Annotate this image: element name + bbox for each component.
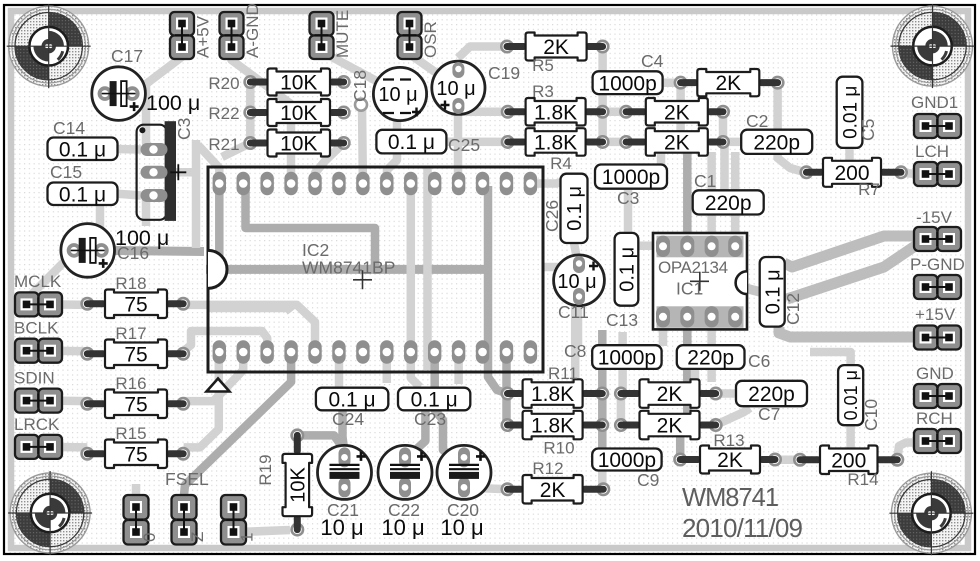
svg-text:220p: 220p [753, 131, 800, 154]
wire FSEL jumper 1 stub [132, 484, 141, 502]
svg-text:WM8741: WM8741 [682, 484, 778, 512]
label C23 [414, 409, 446, 429]
svg-text:2K: 2K [715, 72, 741, 95]
capacitor C18 10u [373, 67, 426, 120]
svg-text:C5: C5 [858, 119, 878, 141]
capacitor C6 220p [677, 345, 745, 369]
value 100u (C17) [146, 91, 200, 115]
connector P-GND [910, 255, 965, 299]
wire IC2 interior vertical B [423, 167, 432, 370]
wire to 2K left col [618, 332, 627, 394]
wire C3 mid pad right [154, 172, 196, 248]
svg-text:R21: R21 [208, 135, 239, 154]
svg-text:R22: R22 [208, 104, 239, 123]
wire 2K to 1000p C3 [661, 83, 681, 166]
svg-text:LRCK: LRCK [14, 415, 60, 434]
wire MCLK to R18 [50, 300, 87, 309]
svg-text:C18: C18 [350, 70, 370, 102]
capacitor C16 100u [61, 224, 115, 278]
resistor 2K row3 [619, 128, 730, 156]
svg-text:R7: R7 [858, 180, 880, 199]
svg-text:C4: C4 [641, 51, 664, 71]
wire C23 to C22 [405, 409, 425, 456]
svg-text:C2: C2 [746, 111, 768, 131]
wire R4 mid link [603, 138, 627, 147]
svg-text:1: 1 [238, 533, 257, 542]
svg-text:1000p: 1000p [598, 449, 656, 472]
value 10u (C20) [440, 515, 483, 540]
label C10 [861, 399, 881, 431]
resistor 2K top [674, 69, 785, 96]
wire C6 down [691, 369, 700, 384]
capacitor C20 10u [437, 445, 491, 499]
wire IC2 interior bus [206, 265, 488, 274]
resistor R7 200 [799, 158, 908, 199]
resistor R21 10K [208, 130, 350, 157]
capacitor C7 220p [736, 381, 807, 406]
wire C24 top feed [335, 356, 344, 389]
svg-text:SDIN: SDIN [14, 369, 55, 388]
wire +15V supply [779, 327, 927, 337]
svg-text:1000p: 1000p [602, 166, 660, 189]
wire IC1 output run [663, 246, 787, 299]
wire R19 to C21 [297, 435, 344, 450]
resistor R11 1.8K [501, 364, 610, 408]
svg-text:2K: 2K [657, 383, 683, 406]
svg-text:10 μ: 10 μ [557, 271, 596, 293]
wire FSEL to R19 [240, 530, 290, 532]
svg-text:BCLK: BCLK [14, 319, 59, 338]
svg-text:LCH: LCH [915, 142, 949, 161]
svg-text:R20: R20 [208, 74, 239, 93]
resistor R16 75 [80, 374, 190, 418]
svg-text:220p: 220p [705, 192, 752, 215]
wire IC2 to R11 [488, 186, 508, 394]
fiducial top-right [891, 4, 975, 88]
svg-text:0.1 μ: 0.1 μ [59, 183, 106, 206]
wire R21 to C3 area [222, 143, 250, 157]
wire 2K to C2 [723, 138, 741, 147]
label C5 [858, 119, 878, 141]
connector GND1 [911, 93, 961, 138]
svg-text:100 μ: 100 μ [115, 226, 169, 250]
wire IC2 to C11 top [543, 262, 576, 267]
svg-text:C14: C14 [53, 118, 85, 138]
svg-text:-15V: -15V [916, 208, 953, 227]
svg-text:R13: R13 [713, 431, 744, 450]
connector GND [914, 364, 961, 408]
capacitor C5 0.01u (vertical) [837, 77, 863, 148]
wire IC2 interior lower [207, 308, 291, 312]
capacitor C12 0.1u (vertical) [760, 257, 785, 327]
wire C11 down [574, 298, 583, 345]
label C22 [388, 500, 420, 520]
svg-text:100 μ: 100 μ [146, 91, 200, 115]
wire IC1 pin5 to C8 col [659, 317, 668, 346]
wire BCLK to R17 [50, 346, 87, 355]
capacitor C23 0.1u [398, 388, 470, 412]
wire C19 to R3 [458, 104, 508, 112]
capacitor C24 0.1u [316, 388, 388, 412]
label C3 (1000p) [617, 188, 639, 208]
wire C17 pad to net [132, 89, 146, 98]
jumper FSEL pads [124, 495, 257, 545]
svg-text:C3: C3 [174, 118, 194, 140]
svg-text:1.8K: 1.8K [534, 132, 577, 155]
wire R14 to RCH [897, 443, 926, 460]
capacitor C10 0.01u (vertical) [838, 365, 863, 425]
svg-text:75: 75 [124, 343, 147, 366]
capacitor C22 10u [378, 445, 432, 499]
op-amp IC2 WM8741BP (DIP-28) [208, 167, 543, 372]
svg-text:C26: C26 [542, 200, 562, 232]
label C4 [641, 51, 664, 71]
svg-text:10 μ: 10 μ [381, 515, 424, 540]
wire 2K left pads link [617, 394, 626, 426]
svg-text:2K: 2K [664, 101, 690, 124]
wire R16 to IC2 pin [184, 351, 244, 401]
svg-text:C9: C9 [637, 470, 659, 490]
wire R5 to C4 [598, 47, 607, 77]
svg-text:0: 0 [140, 533, 159, 542]
svg-text:C25: C25 [448, 135, 480, 155]
svg-text:FSEL: FSEL [165, 469, 209, 489]
wire -15V supply [784, 236, 927, 267]
label C14 [53, 118, 85, 138]
label C13 [606, 310, 638, 330]
wire OSR to C19 [410, 48, 456, 86]
wire C13 to IC1 pin1 [638, 241, 663, 250]
wire C19 down to IC2 pin [454, 88, 463, 184]
label C11 [558, 302, 589, 322]
svg-text:0.1 μ: 0.1 μ [762, 269, 784, 314]
label C19 [488, 63, 520, 83]
label C1 [694, 171, 716, 191]
svg-text:10K: 10K [280, 102, 317, 125]
capacitor C1 220p [693, 190, 764, 215]
svg-text:C6: C6 [748, 351, 770, 371]
svg-text:R11: R11 [548, 364, 578, 383]
wire C2 to IC1 pin4 [731, 152, 740, 246]
wire IC2 pin1 to bus [215, 184, 224, 270]
wire IC2 interior vertical A [407, 184, 416, 353]
svg-text:10 μ: 10 μ [378, 84, 417, 106]
resistor 2K rowB [614, 411, 723, 440]
connector SDIN [14, 369, 62, 413]
svg-text:2K: 2K [717, 449, 743, 472]
wire R20 R22 R21 left pads [246, 82, 255, 143]
wire C20 to R12 [464, 488, 508, 490]
svg-text:1000p: 1000p [598, 347, 656, 370]
date 2010/11/09 [682, 513, 803, 543]
wire IC2 pin feed C23 left [383, 358, 392, 383]
svg-text:R10: R10 [543, 439, 574, 458]
fiducial bottom-left [8, 471, 92, 555]
wire IC2 pin feed below [454, 358, 463, 384]
wire C14 to C3 [118, 145, 142, 154]
wire 2K right pads link [719, 112, 728, 142]
svg-text:R15: R15 [115, 424, 146, 443]
label C18 [350, 70, 370, 102]
svg-text:75: 75 [124, 293, 147, 316]
svg-text:0.1 μ: 0.1 μ [564, 186, 586, 231]
connector -15V [914, 208, 961, 251]
fiducial top-left [7, 4, 91, 88]
label C3 [174, 118, 194, 140]
value 10u (C21) [320, 515, 363, 540]
svg-text:C15: C15 [50, 162, 82, 182]
label C20 [447, 500, 479, 520]
svg-text:C17: C17 [111, 46, 143, 66]
svg-text:1000p: 1000p [598, 72, 656, 95]
svg-text:MUTE: MUTE [333, 10, 352, 58]
wire 2K to C7 [716, 389, 738, 398]
wire x602 column [598, 330, 607, 450]
resistor R15 75 [80, 424, 190, 468]
resistor R10 1.8K [501, 411, 610, 458]
capacitor C3 (polarized) [137, 121, 187, 221]
svg-text:C3: C3 [617, 188, 639, 208]
label C2 [746, 111, 768, 131]
label C7 [758, 404, 780, 424]
svg-text:R4: R4 [550, 154, 572, 173]
label C26 [542, 200, 562, 232]
value 100u (C16) [115, 226, 169, 250]
svg-text:2K: 2K [657, 415, 683, 438]
svg-text:A+5V: A+5V [194, 15, 213, 58]
wire 2K to IC1 pin2 [683, 153, 692, 246]
svg-text:0.1 μ: 0.1 μ [59, 138, 106, 161]
resistor R18 75 [80, 274, 190, 318]
value 10u (C22) [381, 515, 424, 540]
svg-text:2K: 2K [540, 479, 566, 502]
label C6 [748, 351, 770, 371]
svg-text:R18: R18 [115, 274, 146, 293]
svg-text:+15V: +15V [915, 305, 956, 324]
svg-text:A-GND: A-GND [243, 3, 262, 58]
connector A+5V [170, 12, 213, 59]
wire C15 to C3 [118, 194, 142, 196]
svg-text:P-GND: P-GND [910, 255, 965, 274]
connector LCH [914, 142, 961, 186]
label C21 [327, 500, 359, 520]
wire MUTE to C18/IC2 [322, 48, 398, 184]
fiducial bottom-right [889, 471, 973, 555]
wire C16 to MCLK [27, 252, 74, 304]
wire C26 to C11 [574, 243, 577, 259]
wire C3 pad up [192, 140, 201, 172]
resistor R12 2K [501, 459, 611, 504]
svg-text:R19: R19 [256, 454, 275, 485]
capacitor C3cap 1000p [595, 165, 667, 190]
wire 1000p C3 to C13 [624, 190, 633, 234]
resistor R5 2K [500, 33, 610, 76]
wire LRCK to R15 [50, 443, 87, 452]
svg-text:C8: C8 [564, 341, 586, 361]
svg-text:10K: 10K [280, 72, 317, 95]
wire C15 to C16 [96, 206, 105, 237]
connector +15V [914, 305, 961, 350]
svg-text:C19: C19 [488, 63, 520, 83]
svg-text:10 μ: 10 μ [320, 515, 363, 540]
label C8 [564, 341, 586, 361]
capacitor C19 10u [432, 61, 485, 114]
svg-text:10K: 10K [287, 467, 309, 503]
svg-text:OSR: OSR [421, 21, 440, 58]
svg-text:0.1 μ: 0.1 μ [617, 247, 639, 292]
capacitor C4 1000p [593, 71, 663, 95]
connector RCH [914, 409, 961, 453]
wire R18 to IC2 pin [184, 305, 315, 351]
wire C10 to R14 [846, 424, 855, 450]
capacitor C2 220p [741, 130, 812, 155]
connector OSR [398, 12, 441, 59]
svg-text:0.01 μ: 0.01 μ [841, 370, 861, 420]
svg-text:RCH: RCH [916, 409, 953, 428]
resistor R22 10K [208, 99, 350, 126]
wire IC2 to R10 [502, 356, 511, 425]
capacitor C26 0.1u (vertical) [561, 174, 588, 243]
capacitor C8 1000p [592, 345, 661, 369]
wire R5 to C19 top [458, 47, 507, 59]
resistor R13 2K [673, 431, 782, 474]
wire C23 top feed [411, 356, 420, 387]
resistor R4 1.8K [501, 128, 610, 173]
svg-text:220p: 220p [687, 347, 734, 370]
svg-text:R16: R16 [115, 374, 146, 393]
resistor 2K row2 [619, 98, 730, 126]
connector LRCK [14, 415, 62, 459]
wire R7 to LCH [901, 173, 916, 174]
wire C3 bottom pad down [142, 197, 151, 226]
svg-text:GND1: GND1 [911, 93, 958, 112]
svg-text:220p: 220p [748, 383, 795, 406]
wire op-amp out diagonal [787, 240, 926, 300]
wire C7 to C10 [810, 352, 851, 366]
svg-text:R3: R3 [532, 82, 554, 101]
svg-text:R14: R14 [847, 470, 878, 489]
svg-text:OPA2134: OPA2134 [658, 258, 728, 277]
wire C4 to 2K [662, 78, 681, 87]
pin-1 triangle marker [207, 379, 230, 392]
svg-text:2K: 2K [664, 132, 690, 155]
wire IC2 to FSEL diagonal [184, 351, 291, 507]
label C9 [637, 470, 659, 490]
wire R3-R4 right pads [598, 112, 607, 142]
connector BCLK [14, 319, 62, 363]
capacitor C21 10u [318, 445, 372, 499]
svg-text:10K: 10K [280, 133, 317, 156]
capacitor C14 0.1u [48, 138, 118, 162]
resistor R19 10K (vertical) [256, 428, 312, 536]
capacitor C13 0.1u (vertical) [615, 233, 639, 306]
wire 2K to R7 [778, 83, 807, 173]
resistor R14 200 [793, 446, 904, 490]
resistor 2K rowA [614, 379, 723, 408]
capacitor C11 10u [554, 255, 605, 306]
wire IC2 to C20 [435, 358, 462, 458]
wire R3 mid link [603, 108, 627, 117]
svg-text:C24: C24 [332, 409, 364, 429]
op-amp IC1 OPA2134 (DIP-8) [653, 233, 747, 329]
wire via to IC2 pin 7 [358, 107, 367, 184]
connector MCLK [14, 272, 62, 316]
svg-text:10 μ: 10 μ [440, 515, 483, 540]
svg-text:1.8K: 1.8K [531, 383, 574, 406]
label C12 [783, 293, 803, 325]
via near C18 [355, 99, 367, 111]
svg-text:200: 200 [831, 449, 866, 472]
label C25 [448, 135, 480, 155]
svg-text:C13: C13 [606, 310, 638, 330]
svg-text:R12: R12 [532, 459, 563, 478]
svg-text:C12: C12 [783, 293, 803, 325]
wire R21 to IC2 pin 5 [315, 143, 344, 184]
resistor R17 75 [80, 324, 190, 368]
title WM8741 [682, 484, 778, 512]
svg-text:C10: C10 [861, 399, 881, 431]
resistor R20 10K [208, 69, 350, 96]
wire C24 to C21 [343, 409, 345, 452]
wire 2K to C1 [720, 142, 729, 192]
svg-text:1.8K: 1.8K [531, 415, 574, 438]
capacitor C17 100u [92, 67, 146, 121]
resistor R3 1.8K [501, 82, 610, 126]
wire C16 to IC2 notch [102, 250, 204, 251]
svg-text:R5: R5 [532, 56, 554, 75]
label FSEL [165, 469, 209, 489]
wire IC1 pin6 to R13 [680, 317, 687, 460]
svg-text:WM8741BP: WM8741BP [302, 258, 395, 278]
wire C9 to R12 [598, 471, 607, 490]
capacitor C15 0.1u [48, 183, 118, 207]
wire A+5V to C17/C3 [146, 49, 183, 150]
wire C4 to R3 [598, 92, 607, 112]
svg-text:2010/11/09: 2010/11/09 [682, 513, 803, 543]
svg-text:Z: Z [188, 532, 207, 542]
wire C5 to R7 [845, 146, 854, 161]
wire IC1 pin7 to C7 [707, 317, 716, 382]
wire IC2 interior upper [246, 190, 376, 266]
label C17 [111, 46, 143, 66]
wire C25 to R4 [446, 137, 508, 146]
svg-text:GND: GND [916, 364, 954, 383]
wire C1 to IC1 pin3 [707, 152, 716, 246]
svg-text:MCLK: MCLK [14, 272, 62, 291]
svg-text:R17: R17 [115, 324, 146, 343]
wire C26 to IC2 [530, 179, 574, 184]
svg-text:0.1 μ: 0.1 μ [388, 131, 435, 154]
label C15 [50, 162, 82, 182]
wire R13 to R14 [775, 455, 800, 464]
capacitor C25 0.1u [376, 130, 446, 154]
svg-text:C1: C1 [694, 171, 716, 191]
connector A-GND [220, 3, 263, 59]
wire SDIN to R16 [50, 396, 87, 405]
label C24 [332, 409, 364, 429]
wire 2K to C7 lower [716, 408, 750, 425]
svg-text:75: 75 [124, 443, 147, 466]
label C16 [117, 243, 149, 263]
svg-text:C7: C7 [758, 404, 780, 424]
wire C11 to R11 row [571, 300, 580, 383]
wire R15 to IC2 pin [184, 351, 219, 447]
capacitor C9 1000p [592, 449, 661, 473]
svg-text:C11: C11 [558, 302, 589, 322]
wire R17 to IC2 pin [184, 331, 268, 351]
svg-text:10 μ: 10 μ [436, 78, 475, 100]
connector MUTE [310, 10, 353, 59]
